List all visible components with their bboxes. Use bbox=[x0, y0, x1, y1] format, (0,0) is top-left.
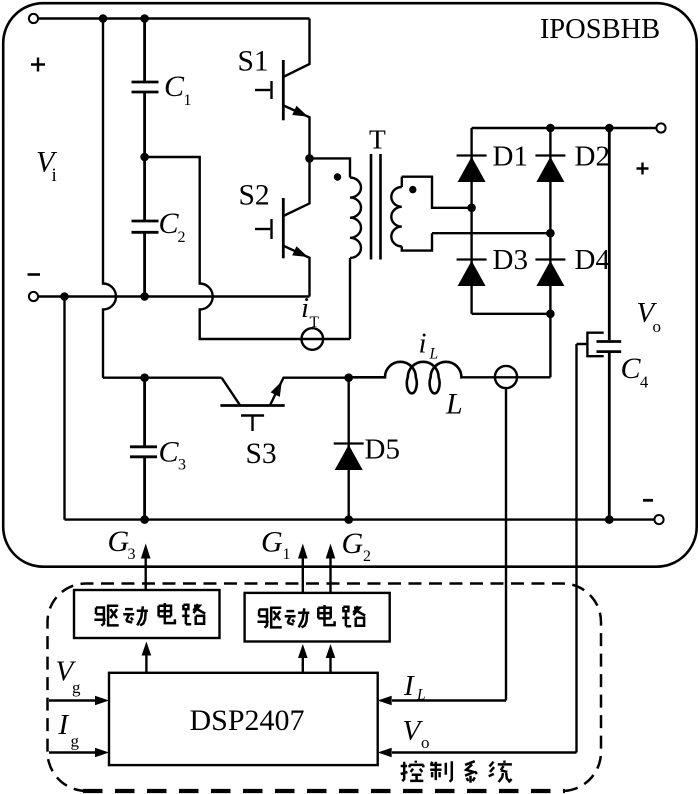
node bridge mid-right junction bbox=[546, 229, 555, 238]
wire Vo sense drop bbox=[575, 344, 577, 753]
terminal + output bbox=[656, 123, 665, 132]
wire negative input rail bbox=[38, 295, 309, 297]
svg-text:T: T bbox=[369, 124, 386, 155]
node C4 bottom junction bbox=[605, 515, 614, 524]
gate arrow G2 bbox=[329, 557, 331, 593]
capacitor C1 bbox=[132, 19, 159, 158]
capacitor C4 bbox=[597, 128, 622, 520]
svg-text:3: 3 bbox=[178, 457, 186, 474]
capacitor C2 bbox=[132, 157, 159, 297]
arrow DSP to driver 2a bbox=[302, 655, 304, 673]
wire L to bridge bbox=[461, 376, 550, 378]
wire IL sense drop bbox=[505, 389, 507, 701]
svg-text:g: g bbox=[71, 732, 80, 751]
arrow Vo into DSP bbox=[392, 751, 577, 753]
transformer core bbox=[371, 154, 381, 260]
current sensor iT bbox=[302, 328, 324, 350]
node secondary-bridge junction bbox=[467, 204, 476, 213]
svg-text:IPOSBHB: IPOSBHB bbox=[540, 14, 660, 45]
wire bridge left vertical bbox=[470, 128, 472, 314]
node top rail C4 junction bbox=[605, 124, 614, 133]
node top-left junction bbox=[99, 14, 108, 23]
svg-text:S2: S2 bbox=[239, 180, 270, 212]
wire left vertical x103 with hop bbox=[103, 19, 116, 378]
dashed control system box bbox=[48, 583, 602, 791]
wire left drop to bottom rail bbox=[63, 297, 65, 520]
transistor S1 bbox=[255, 19, 310, 159]
terminal - output bbox=[654, 515, 663, 524]
svg-text:2: 2 bbox=[363, 548, 371, 565]
current sensor iL bbox=[495, 366, 517, 388]
node bridge bottom junction bbox=[546, 310, 555, 319]
svg-text:DSP2407: DSP2407 bbox=[189, 704, 304, 737]
svg-text:D5: D5 bbox=[365, 434, 400, 466]
svg-text:3: 3 bbox=[128, 546, 136, 563]
svg-text:T: T bbox=[310, 314, 320, 331]
label + (output polarity) bbox=[637, 163, 649, 175]
wire top rail bbox=[38, 17, 309, 19]
wire bridge right vertical bbox=[549, 128, 551, 377]
inductor L bbox=[349, 362, 462, 394]
svg-text:g: g bbox=[72, 678, 81, 697]
svg-text:G: G bbox=[261, 526, 283, 559]
svg-text:D4: D4 bbox=[575, 244, 611, 276]
svg-text:4: 4 bbox=[640, 373, 648, 392]
outer enclosure box IPOSBHB bbox=[3, 3, 697, 567]
label + (input polarity) bbox=[31, 58, 45, 72]
svg-text:D1: D1 bbox=[493, 141, 528, 173]
diode D3 bbox=[457, 258, 487, 260]
wire secondary lower lead bbox=[432, 232, 550, 234]
svg-text:1: 1 bbox=[184, 92, 192, 109]
svg-text:o: o bbox=[421, 733, 430, 752]
node C1 top junction bbox=[140, 14, 149, 23]
arrow Ig input bbox=[49, 751, 96, 753]
wire midpoint to primary top bbox=[310, 158, 351, 177]
svg-text:2: 2 bbox=[178, 229, 186, 246]
transistor S2 bbox=[255, 158, 310, 296]
primary polarity dot bbox=[334, 173, 341, 180]
wire output top rail bbox=[472, 127, 657, 129]
diode D5 bbox=[348, 378, 350, 520]
node C1-C2 midpoint bbox=[140, 153, 149, 162]
svg-text:I: I bbox=[58, 709, 70, 741]
wire bridge bottom bbox=[472, 313, 551, 315]
wire primary bottom lead bbox=[349, 258, 351, 339]
svg-text:D3: D3 bbox=[493, 244, 528, 276]
node C3 top junction bbox=[140, 373, 149, 382]
label - (output polarity) bbox=[643, 499, 653, 502]
arrow DSP to driver 1 bbox=[145, 652, 147, 673]
svg-text:L: L bbox=[429, 346, 439, 363]
gate arrow G1 bbox=[302, 557, 304, 593]
svg-text:S1: S1 bbox=[238, 46, 269, 78]
drive circuit box 2 bbox=[245, 593, 390, 642]
label - (input polarity) bbox=[28, 273, 41, 276]
svg-text:C: C bbox=[159, 207, 180, 240]
transistor S3 bbox=[220, 378, 348, 431]
wire bottom rail bbox=[65, 518, 655, 520]
node left rail junction bbox=[60, 292, 69, 301]
svg-text:C: C bbox=[164, 70, 185, 103]
wire secondary top lead bbox=[402, 177, 472, 208]
wire midpoint to primary with hop bbox=[145, 157, 350, 339]
label drive circuit text 1 (Chinese) bbox=[94, 606, 118, 626]
svg-text:S3: S3 bbox=[246, 438, 277, 470]
voltage sense bracket on C4 bbox=[577, 333, 604, 357]
svg-text:G: G bbox=[108, 525, 130, 558]
svg-text:i: i bbox=[52, 165, 57, 186]
diode D1 bbox=[457, 154, 487, 156]
svg-text:1: 1 bbox=[283, 546, 291, 563]
label control system text (Chinese) bbox=[401, 761, 424, 782]
node C2 bottom junction bbox=[140, 292, 149, 301]
diode D2 bbox=[535, 154, 565, 156]
node C3 bottom junction bbox=[140, 515, 149, 524]
DSP2407 box bbox=[109, 673, 378, 765]
capacitor C3 bbox=[130, 378, 157, 520]
svg-text:L: L bbox=[445, 388, 463, 421]
svg-text:C: C bbox=[621, 352, 642, 385]
svg-text:C: C bbox=[159, 436, 180, 469]
dashed control box bottom edge bbox=[83, 789, 565, 793]
wire S3 collector rail bbox=[103, 377, 222, 379]
svg-text:D2: D2 bbox=[575, 141, 610, 173]
svg-text:I: I bbox=[403, 670, 415, 702]
drive circuit box 1 bbox=[74, 590, 220, 638]
node D5 bottom junction bbox=[344, 515, 353, 524]
transformer secondary winding bbox=[401, 177, 403, 187]
svg-text:G: G bbox=[342, 527, 364, 560]
svg-text:o: o bbox=[653, 317, 662, 336]
node half-bridge midpoint bbox=[305, 154, 314, 163]
secondary polarity dot bbox=[409, 186, 416, 193]
label drive circuit text 2 (Chinese) bbox=[258, 608, 282, 628]
transformer primary winding bbox=[350, 178, 361, 258]
node S3-D5-L junction bbox=[344, 373, 353, 382]
svg-text:i: i bbox=[301, 292, 309, 324]
arrow Vg input bbox=[49, 699, 96, 701]
gate arrow G3 bbox=[144, 557, 146, 591]
node top rail D2 junction bbox=[546, 124, 555, 133]
diode D4 bbox=[535, 258, 565, 260]
terminal - input bbox=[29, 292, 38, 301]
arrow IL into DSP bbox=[392, 699, 506, 701]
arrow DSP to driver 2b bbox=[329, 655, 331, 673]
terminal + input bbox=[29, 14, 38, 23]
svg-text:i: i bbox=[419, 328, 427, 360]
